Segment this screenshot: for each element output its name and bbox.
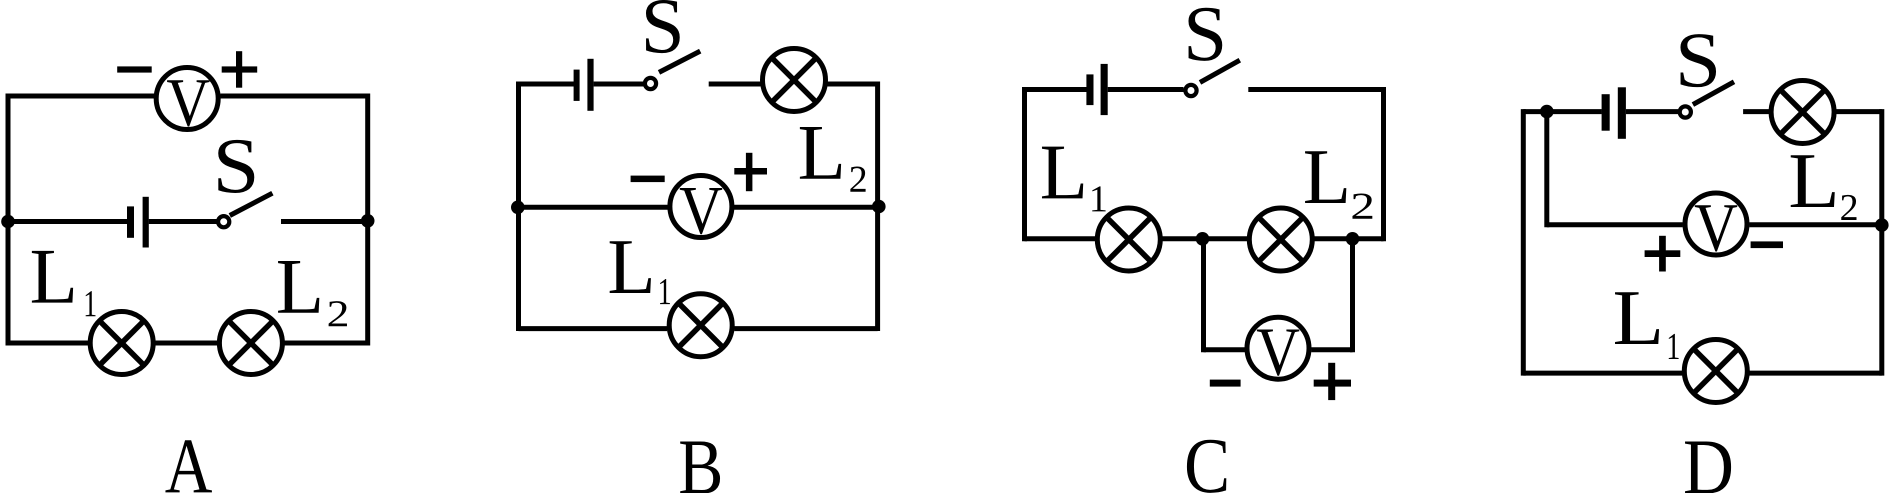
polarity minus label (C voltmeter) [1210,380,1241,387]
wire lamp-to-right B [828,82,878,87]
wire voltmeter-branch bottom-left C [1204,347,1246,352]
battery (circuit A) [127,197,149,248]
caption D [1685,442,1731,493]
junction dot right B [872,200,886,214]
wire switch-to-lamp B [709,82,761,87]
wire battery-to-switch D [1626,109,1678,114]
label L1 (circuit C) [1042,147,1106,212]
caption A [165,440,211,492]
wire top-right segment A [220,94,367,99]
junction dot right D [1875,218,1889,232]
wire battery-to-switch B [594,82,644,87]
wire middle-left segment A [8,219,128,224]
wire dot-to-lamp2 C [1204,236,1248,241]
switch S (circuit C) [1185,60,1239,96]
wire top-left segment B [519,82,575,87]
label L1 (circuit D) [1615,292,1679,359]
wire middle-left segment C [1025,236,1096,241]
wire lamp2-to-dot C [1314,236,1384,241]
wire inner left vertical D [1544,112,1549,228]
wire bottom-left segment B [519,326,668,331]
battery (circuit D) [1602,87,1626,139]
wire top-left segment C [1025,87,1087,92]
wire right vertical C [1381,87,1386,241]
wire middle-left segment B [519,205,669,210]
label S (circuit A) [218,140,254,193]
lamp L2 (circuit D) [1771,81,1834,144]
wire outer left vertical D [1521,109,1526,376]
polarity plus label (D voltmeter) [1645,236,1681,272]
polarity minus label (D voltmeter) [1751,241,1783,248]
wire middle-left segment D [1547,222,1683,227]
wire middle-right segment B [734,205,878,210]
caption B [680,442,720,493]
switch S (circuit B) [645,51,700,89]
lamp L1 (circuit C) [1097,208,1160,271]
wire left vertical A [6,94,11,346]
wire left vertical C [1022,87,1027,241]
junction dot top-left D [1540,105,1554,119]
wire bottom-right segment B [734,326,877,331]
label L1 (circuit A) [32,251,96,316]
junction dot left C [1196,232,1210,246]
wire between lamps A [155,341,218,346]
label S (circuit C) [1188,8,1222,61]
wire battery-to-switch C [1108,87,1184,92]
voltmeter V (circuit B) [670,176,732,238]
label L2 (circuit B) [800,127,866,192]
voltmeter V (circuit D) [1685,193,1747,255]
wire lamp1-to-dot C [1162,236,1204,241]
label S (circuit B) [646,0,680,53]
lamp L1 (circuit A) [90,312,153,375]
label L1 (circuit B) [610,241,670,304]
wire bottom-right segment A [284,341,368,346]
wire right vertical D [1879,109,1884,376]
wire left vertical B [516,82,521,332]
lamp L2 (circuit B) [763,49,826,112]
label S (circuit D) [1680,34,1716,87]
junction dot left A [1,215,15,229]
wire switch-to-right A [281,219,368,224]
lamp L1 (circuit B) [669,294,732,357]
wire voltmeter-branch bottom-right C [1311,347,1352,352]
wire lamp-to-right D [1836,109,1882,114]
label L2 (circuit A) [278,261,347,326]
wire bottom-right segment D [1749,371,1881,376]
wire bottom-left segment D [1523,371,1682,376]
wire top-left segment D [1523,109,1602,114]
voltmeter V (circuit A) [156,68,218,130]
junction dot left B [511,201,525,215]
switch S (circuit D) [1680,82,1734,118]
junction dot right A [361,214,375,228]
label L2 (circuit D) [1791,155,1857,220]
battery (circuit B) [574,59,594,111]
wire voltmeter-branch left vertical C [1201,239,1206,352]
wire right vertical A [365,94,370,346]
polarity minus label (A voltmeter) [117,66,152,72]
polarity plus label (A voltmeter) [222,51,258,87]
wire switch-to-right C [1248,87,1383,92]
polarity minus label (B voltmeter) [631,176,665,183]
label L2 (circuit C) [1305,151,1372,218]
lamp L1 (circuit D) [1684,340,1747,403]
polarity plus label (B voltmeter) [734,153,767,191]
lamp L2 (circuit A) [219,312,282,375]
wire voltmeter-branch right vertical C [1350,239,1355,352]
switch S (circuit A) [218,193,272,227]
wire switch-to-lamp D [1743,109,1769,114]
caption C [1187,440,1226,493]
wire middle-right segment D [1749,222,1882,227]
battery (circuit C) [1086,64,1107,115]
voltmeter V (circuit C) [1247,317,1309,379]
wire battery-to-switch A [149,219,217,224]
polarity plus label (C voltmeter) [1314,363,1351,400]
wire right vertical B [875,82,880,332]
junction dot right C [1346,232,1360,246]
lamp L2 (circuit C) [1249,208,1312,271]
wire top-left segment A [8,94,155,99]
wire bottom-left segment A [8,341,88,346]
